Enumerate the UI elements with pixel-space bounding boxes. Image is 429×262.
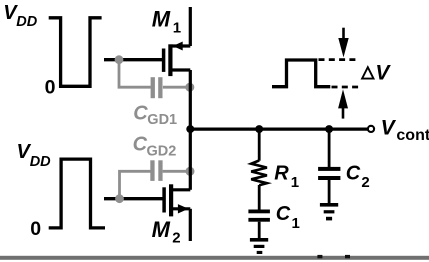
wire: M1 source down to output node bbox=[189, 70, 192, 129]
node: gray junction dot on M1 gate wire bbox=[115, 55, 124, 64]
wire: gray wire from CGD2 right plate to M2 drain line bbox=[163, 170, 190, 173]
svg-text:R: R bbox=[274, 162, 289, 184]
node: gray junction dot on M2 gate wire bbox=[115, 194, 124, 203]
arrow up (to bottom dashed line) bbox=[338, 89, 348, 118]
label Vcont bbox=[381, 117, 429, 144]
svg-text:cont: cont bbox=[396, 127, 429, 144]
label CGD2 bbox=[133, 133, 177, 159]
svg-text:0: 0 bbox=[45, 77, 56, 99]
capacitor C1 bbox=[248, 210, 270, 222]
resistor R1 bbox=[251, 161, 267, 186]
wire: M2 source down bbox=[189, 209, 192, 241]
dashed level line (bottom) bbox=[332, 86, 360, 89]
wire: M2 drain up to output node bbox=[189, 129, 192, 190]
capacitor C2 bbox=[318, 167, 340, 180]
ground (below C1) bbox=[250, 238, 268, 254]
wire: gray wire from M1 gate node to CGD1 left plate bbox=[119, 60, 151, 87]
node: gray junction dot CGD1 on M1 source line bbox=[185, 83, 194, 92]
svg-text:1: 1 bbox=[292, 215, 300, 232]
terminal: open circle at Vcont bbox=[368, 126, 374, 132]
svg-text:V: V bbox=[375, 61, 391, 84]
footer tick mark 1 bbox=[317, 255, 322, 258]
label M1 bbox=[152, 7, 181, 37]
wire: gray wire from CGD1 right plate to M1 source line bbox=[163, 86, 190, 89]
capacitor CGD1 bbox=[151, 77, 163, 98]
svg-text:DD: DD bbox=[16, 14, 37, 30]
svg-text:C: C bbox=[133, 103, 148, 125]
wire: M2 gate wire bbox=[104, 197, 164, 200]
wire: C1 to ground bbox=[258, 222, 261, 239]
label delta-V bbox=[362, 61, 391, 84]
capacitor CGD2 bbox=[150, 160, 162, 181]
svg-text:GD2: GD2 bbox=[147, 143, 177, 159]
svg-text:1: 1 bbox=[173, 20, 181, 37]
label VDD (top waveform) bbox=[3, 2, 38, 30]
waveform: VDD negative pulse driving M1 gate bbox=[49, 18, 102, 87]
svg-text:V: V bbox=[381, 117, 397, 140]
wire: output node line to Vcont bbox=[190, 128, 367, 131]
label CGD1 bbox=[133, 103, 177, 128]
wire: M1 gate wire bbox=[104, 58, 164, 61]
wire: gray wire from M2 gate node to CGD2 left plate bbox=[120, 171, 151, 198]
node: junction dot at M1/M2 drains bbox=[186, 125, 194, 133]
svg-text:M: M bbox=[152, 7, 171, 32]
svg-text:1: 1 bbox=[291, 174, 299, 191]
slide footer gray bar bbox=[0, 256, 429, 260]
svg-text:M: M bbox=[152, 217, 171, 242]
label C1 bbox=[276, 203, 300, 232]
wire: R1 to C1 bbox=[258, 185, 261, 210]
label R1 bbox=[274, 162, 299, 191]
label C2 bbox=[346, 162, 370, 191]
svg-text:GD1: GD1 bbox=[147, 112, 177, 128]
transistor M2 (NMOS) bbox=[164, 184, 190, 216]
svg-text:2: 2 bbox=[172, 230, 180, 247]
svg-text:C: C bbox=[276, 203, 291, 225]
wire: node down to R1 bbox=[258, 129, 261, 161]
wire: C2 to ground bbox=[328, 179, 331, 203]
node: junction dot at R1 branch bbox=[255, 125, 263, 133]
label VDD (bottom waveform) bbox=[17, 141, 52, 170]
svg-text:2: 2 bbox=[361, 174, 369, 191]
svg-text:C: C bbox=[133, 133, 148, 155]
footer tick mark 2 bbox=[345, 255, 350, 258]
arrow down (to top dashed line) bbox=[338, 28, 348, 58]
svg-text:C: C bbox=[346, 162, 361, 184]
node: gray junction dot CGD2 on M2 drain line bbox=[186, 167, 195, 176]
svg-text:0: 0 bbox=[30, 218, 41, 240]
svg-text:DD: DD bbox=[30, 154, 51, 170]
wire: node down to C2 bbox=[328, 129, 331, 168]
label M2 bbox=[152, 217, 181, 247]
dashed level line (top) bbox=[319, 58, 360, 61]
transistor M1 (PMOS) bbox=[164, 42, 191, 77]
waveform: small output pulse (feedthrough step) bbox=[272, 60, 330, 87]
node: junction dot at C2 branch bbox=[325, 125, 333, 133]
ground (below C2) bbox=[320, 203, 338, 220]
waveform: VDD positive pulse driving M2 gate bbox=[49, 159, 105, 228]
wire: M1 drain up to supply bbox=[189, 7, 192, 46]
